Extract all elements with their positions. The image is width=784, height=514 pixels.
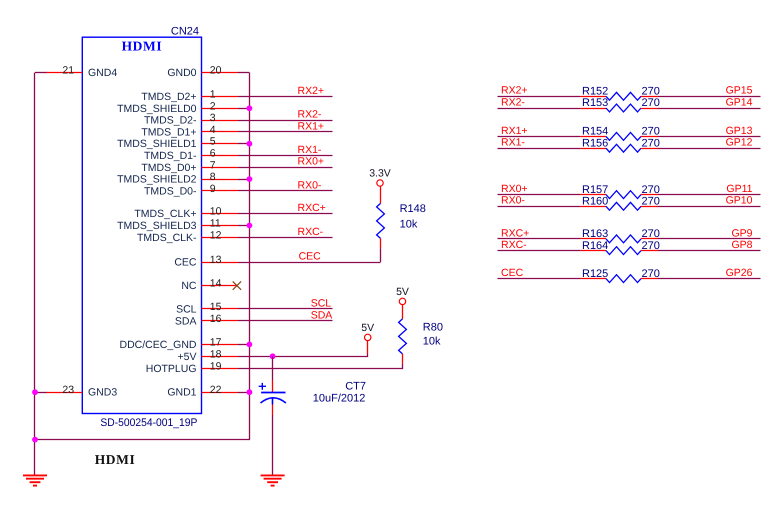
wire RX2- to R153	[498, 108, 581, 110]
svg-text:10k: 10k	[423, 335, 441, 347]
ground right (CT7)	[261, 475, 285, 485]
svg-text:GP14: GP14	[726, 96, 753, 108]
pin 15 (SCL)	[176, 301, 238, 316]
wire RX0- from connector	[238, 190, 333, 192]
wire R164 to GP8	[658, 250, 761, 252]
pin 2 (TMDS_SHIELD0)	[117, 100, 238, 115]
svg-text:DDC/CEC_GND: DDC/CEC_GND	[119, 339, 196, 351]
svg-text:HOTPLUG: HOTPLUG	[146, 363, 197, 375]
pin 13 (CEC)	[174, 254, 238, 269]
pin 3 (TMDS_D2-)	[144, 112, 238, 127]
power port 3.3V	[369, 167, 391, 186]
svg-text:SD-500254-001_19P: SD-500254-001_19P	[100, 417, 197, 429]
resistor R156	[580, 144, 658, 152]
svg-text:RX2-: RX2-	[501, 96, 525, 108]
wire pin5 to GND vertical	[238, 143, 249, 145]
svg-text:R153: R153	[582, 97, 608, 109]
svg-text:GP10: GP10	[726, 195, 753, 207]
svg-text:GND3: GND3	[88, 387, 117, 399]
pin 12 (TMDS_CLK-)	[137, 229, 238, 244]
svg-text:TMDS_CLK-: TMDS_CLK-	[137, 232, 197, 244]
svg-text:4: 4	[210, 124, 216, 136]
wire pin22 to GND vertical	[238, 392, 249, 394]
wire RXC- from connector	[238, 237, 333, 239]
svg-text:11: 11	[210, 218, 221, 230]
svg-text:R157: R157	[582, 184, 608, 196]
svg-text:RXC+: RXC+	[501, 227, 529, 239]
wire RX1+ from connector	[238, 131, 333, 133]
svg-text:TMDS_SHIELD1: TMDS_SHIELD1	[117, 138, 197, 150]
svg-text:GP12: GP12	[726, 137, 753, 149]
pin 5 (TMDS_SHIELD1)	[117, 136, 238, 151]
svg-text:16: 16	[210, 313, 222, 325]
svg-text:9: 9	[210, 183, 216, 195]
svg-text:NC: NC	[181, 280, 197, 292]
svg-text:6: 6	[210, 148, 216, 160]
wire RX0+ from connector	[238, 167, 333, 169]
svg-text:RX0-: RX0-	[501, 195, 525, 207]
svg-text:CEC: CEC	[174, 257, 197, 269]
wire CT7 to ground	[272, 415, 274, 475]
no-connect X on pin 14	[233, 281, 241, 289]
svg-text:TMDS_CLK+: TMDS_CLK+	[134, 208, 196, 220]
power port 5V (R80)	[396, 286, 409, 305]
wire R154 to GP13	[658, 136, 761, 138]
svg-text:23: 23	[62, 384, 74, 396]
svg-text:RX1-: RX1-	[298, 144, 322, 156]
svg-text:TMDS_D1+: TMDS_D1+	[141, 126, 196, 138]
svg-text:R152: R152	[582, 86, 608, 98]
capacitor CT7	[259, 380, 286, 415]
svg-text:SDA: SDA	[175, 315, 197, 327]
wire SCL from connector	[238, 308, 333, 310]
wire GND vertical right of connector (net GND)	[249, 73, 251, 440]
svg-text:270: 270	[642, 268, 660, 280]
resistor R152	[580, 92, 658, 100]
pin 19 (HOTPLUG)	[146, 360, 238, 375]
junction pin2/GND	[247, 105, 253, 111]
wire pin23 to left GND vertical	[35, 392, 47, 394]
svg-text:TMDS_SHIELD0: TMDS_SHIELD0	[117, 103, 197, 115]
svg-text:GND1: GND1	[167, 387, 196, 399]
svg-text:R156: R156	[582, 137, 608, 149]
wire 3.3V to R148	[380, 186, 382, 203]
svg-text:270: 270	[642, 97, 660, 109]
wire pin2 to GND vertical	[238, 108, 249, 110]
svg-text:+5V: +5V	[178, 351, 197, 363]
svg-text:270: 270	[642, 137, 660, 149]
svg-text:RX0-: RX0-	[298, 179, 322, 191]
svg-text:19: 19	[210, 360, 222, 372]
svg-text:RXC-: RXC-	[298, 226, 324, 238]
wire RXC+ to R163	[498, 238, 581, 240]
wire RX0+ to R157	[498, 194, 581, 196]
svg-text:5V: 5V	[396, 286, 409, 298]
svg-text:TMDS_D1-: TMDS_D1-	[144, 150, 197, 162]
svg-text:TMDS_SHIELD2: TMDS_SHIELD2	[117, 174, 197, 186]
svg-text:R164: R164	[582, 240, 608, 252]
svg-text:GND0: GND0	[167, 67, 196, 79]
wire SDA from connector	[238, 320, 333, 322]
wire RX1- to R156	[498, 148, 581, 150]
wire CT7 top	[272, 356, 274, 380]
junction pin17/GND	[247, 342, 253, 348]
wire 5V corner to pin18	[238, 354, 368, 357]
wire RXC- to R164	[498, 250, 581, 252]
svg-text:R80: R80	[423, 321, 443, 333]
wire RX2- from connector	[238, 120, 333, 122]
resistor R164	[580, 247, 658, 255]
svg-text:21: 21	[62, 65, 74, 77]
svg-text:HDMI: HDMI	[95, 452, 136, 467]
svg-text:270: 270	[642, 228, 660, 240]
svg-text:RX1+: RX1+	[501, 125, 528, 137]
pin 21 (GND4)	[46, 65, 118, 80]
svg-text:R160: R160	[582, 196, 608, 208]
svg-text:RX2-: RX2-	[298, 109, 322, 121]
svg-text:5V: 5V	[361, 322, 374, 334]
pin 11 (TMDS_SHIELD3)	[117, 218, 238, 233]
svg-text:18: 18	[210, 348, 222, 360]
wire RX2+ to R152	[498, 96, 581, 98]
svg-text:RXC-: RXC-	[501, 239, 527, 251]
svg-text:GP26: GP26	[726, 267, 753, 279]
svg-text:270: 270	[642, 126, 660, 138]
svg-text:CEC: CEC	[299, 250, 322, 262]
svg-text:8: 8	[210, 171, 216, 183]
ground left	[23, 475, 47, 485]
svg-text:CT7: CT7	[345, 380, 366, 392]
resistor R80	[399, 319, 407, 364]
svg-text:CN24: CN24	[171, 25, 199, 37]
junction pin8/GND	[247, 176, 253, 182]
svg-text:22: 22	[210, 384, 222, 396]
junction pin5/GND	[247, 141, 253, 147]
junction GND bus/left vertical	[32, 437, 38, 443]
svg-text:10: 10	[210, 206, 222, 218]
svg-text:15: 15	[210, 301, 222, 313]
svg-text:17: 17	[210, 336, 222, 348]
svg-text:GP13: GP13	[726, 125, 753, 137]
wire GND bottom bus	[35, 439, 250, 441]
svg-text:GP8: GP8	[731, 239, 752, 251]
wire CEC to R125	[498, 278, 581, 280]
wire R152 to GP15	[658, 96, 761, 98]
pin 10 (TMDS_CLK+)	[134, 206, 238, 221]
junction pin23/GND	[32, 389, 38, 395]
resistor R154	[580, 132, 658, 140]
pin 18 (+5V)	[178, 348, 238, 363]
svg-text:270: 270	[642, 86, 660, 98]
svg-text:270: 270	[642, 240, 660, 252]
wire R156 to GP12	[658, 148, 761, 150]
power port 5V (pin 18)	[361, 322, 374, 341]
svg-text:SDA: SDA	[311, 309, 333, 321]
svg-text:GND4: GND4	[88, 67, 117, 79]
svg-text:TMDS_D0+: TMDS_D0+	[141, 162, 196, 174]
svg-text:TMDS_D0-: TMDS_D0-	[144, 185, 197, 197]
wire RX1- from connector	[238, 155, 333, 157]
wire RXC+ from connector	[238, 213, 333, 215]
pin 20 (GND0)	[167, 65, 238, 80]
wire R160 to GP10	[658, 206, 761, 208]
wire GND vertical left of connector (net GND)	[34, 73, 36, 476]
svg-text:RX2+: RX2+	[501, 85, 528, 97]
wire pin21 to left GND vertical	[35, 72, 47, 74]
svg-text:HDMI: HDMI	[122, 38, 163, 53]
resistor R125	[580, 275, 658, 283]
wire R80 to pin19	[238, 364, 403, 369]
resistor R157	[580, 191, 658, 199]
svg-text:TMDS_D2-: TMDS_D2-	[144, 115, 197, 127]
wire pin8 to GND vertical	[238, 179, 249, 181]
junction pin18/CT7	[270, 353, 276, 359]
svg-text:10uF/2012: 10uF/2012	[313, 393, 366, 405]
svg-text:RX0+: RX0+	[298, 156, 325, 168]
wire R153 to GP14	[658, 108, 761, 110]
resistor R160	[580, 202, 658, 210]
pin 7 (TMDS_D0+)	[141, 159, 238, 174]
svg-text:1: 1	[210, 89, 216, 101]
svg-text:7: 7	[210, 159, 216, 171]
wire R157 to GP11	[658, 194, 761, 196]
connector CN24 body	[82, 37, 201, 413]
svg-text:SCL: SCL	[176, 304, 197, 316]
wire RX2+ from connector	[238, 96, 333, 98]
pin 8 (TMDS_SHIELD2)	[117, 171, 238, 186]
pin 1 (TMDS_D2+)	[141, 89, 238, 104]
pin 9 (TMDS_D0-)	[144, 183, 238, 198]
pin 17 (DDC/CEC_GND)	[119, 336, 238, 351]
svg-text:RX1-: RX1-	[501, 137, 525, 149]
svg-text:RXC+: RXC+	[298, 202, 326, 214]
wire pin20 to GND vertical	[238, 72, 249, 74]
wire RX1+ to R154	[498, 136, 581, 138]
wire R163 to GP9	[658, 238, 761, 240]
pin 23 (GND3)	[46, 384, 118, 399]
wire 5V to R80	[402, 305, 404, 319]
svg-text:TMDS_SHIELD3: TMDS_SHIELD3	[117, 220, 197, 232]
svg-text:12: 12	[210, 229, 222, 241]
pin 14 (NC)	[181, 278, 237, 293]
svg-text:R148: R148	[400, 203, 426, 215]
svg-text:14: 14	[210, 278, 222, 290]
svg-text:GP15: GP15	[726, 85, 753, 97]
svg-text:SCL: SCL	[311, 297, 332, 309]
wire pin11 to GND vertical	[238, 225, 249, 227]
junction pin11/GND	[247, 223, 253, 229]
svg-text:270: 270	[642, 184, 660, 196]
svg-text:RX1+: RX1+	[298, 120, 325, 132]
svg-text:R125: R125	[582, 268, 608, 280]
svg-text:R154: R154	[582, 126, 608, 138]
svg-text:2: 2	[210, 100, 216, 112]
pin 4 (TMDS_D1+)	[141, 124, 238, 139]
junction pin22/GND	[247, 389, 253, 395]
resistor R153	[580, 104, 658, 112]
wire 5V down	[367, 341, 369, 354]
wire R148 to CEC net	[380, 248, 382, 262]
wire RX0- to R160	[498, 206, 581, 208]
wire CEC from connector	[238, 262, 381, 264]
resistor R163	[580, 235, 658, 243]
svg-text:GP9: GP9	[731, 227, 752, 239]
resistor R148	[377, 203, 385, 248]
svg-text:RX2+: RX2+	[298, 85, 325, 97]
svg-text:GP11: GP11	[726, 183, 752, 195]
svg-text:13: 13	[210, 254, 222, 266]
pin 22 (GND1)	[167, 384, 238, 399]
pin 16 (SDA)	[175, 313, 238, 328]
wire pin17 to GND vertical	[238, 344, 249, 346]
svg-text:R163: R163	[582, 228, 608, 240]
svg-text:10k: 10k	[400, 218, 418, 230]
svg-text:5: 5	[210, 136, 216, 148]
svg-text:20: 20	[210, 65, 222, 77]
svg-text:RX0+: RX0+	[501, 183, 528, 195]
svg-text:270: 270	[642, 196, 660, 208]
svg-text:3.3V: 3.3V	[369, 167, 391, 179]
pin 6 (TMDS_D1-)	[144, 148, 238, 163]
svg-text:CEC: CEC	[501, 267, 524, 279]
svg-text:TMDS_D2+: TMDS_D2+	[141, 91, 196, 103]
svg-text:3: 3	[210, 112, 216, 124]
wire R125 to GP26	[658, 278, 761, 280]
